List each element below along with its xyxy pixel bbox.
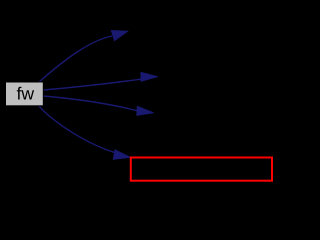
wire edge fw->node3 (straight) — [43, 96, 137, 111]
node 1 (invisible black box) — [129, 20, 248, 44]
wire edge fw->node1 (curved) — [39, 36, 113, 83]
wire edge fw->node2 (straight) — [43, 79, 142, 90]
arrowhead 3 — [137, 106, 154, 115]
arrowhead 1 — [111, 31, 127, 41]
arrowhead 4 — [113, 150, 129, 159]
node 4 (red truncated node) — [131, 158, 272, 181]
wire edge fw->node4 (curved) — [39, 106, 115, 152]
arrowhead 2 — [141, 72, 158, 81]
node 3 (invisible black box) — [154, 101, 268, 125]
label "fw" text glyphs — [17, 87, 34, 100]
node fw (current file, grey filled) — [6, 82, 44, 106]
node 2 (invisible black box) — [158, 65, 277, 89]
